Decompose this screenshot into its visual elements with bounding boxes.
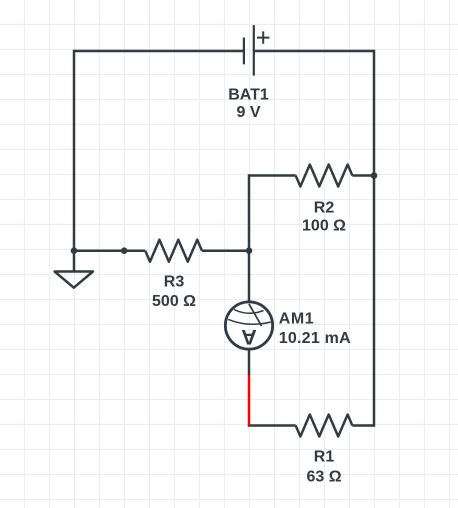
svg-text:AM1: AM1 (279, 311, 314, 328)
svg-text:9 V: 9 V (236, 104, 260, 121)
svg-text:R1: R1 (314, 449, 335, 466)
svg-text:R2: R2 (314, 200, 335, 217)
svg-text:A: A (241, 325, 257, 349)
svg-text:10.21 mA: 10.21 mA (279, 330, 351, 347)
svg-text:BAT1: BAT1 (228, 87, 269, 104)
svg-text:R3: R3 (164, 274, 185, 291)
svg-text:100 Ω: 100 Ω (302, 218, 346, 235)
svg-text:500 Ω: 500 Ω (152, 293, 196, 310)
svg-text:63 Ω: 63 Ω (306, 468, 341, 485)
